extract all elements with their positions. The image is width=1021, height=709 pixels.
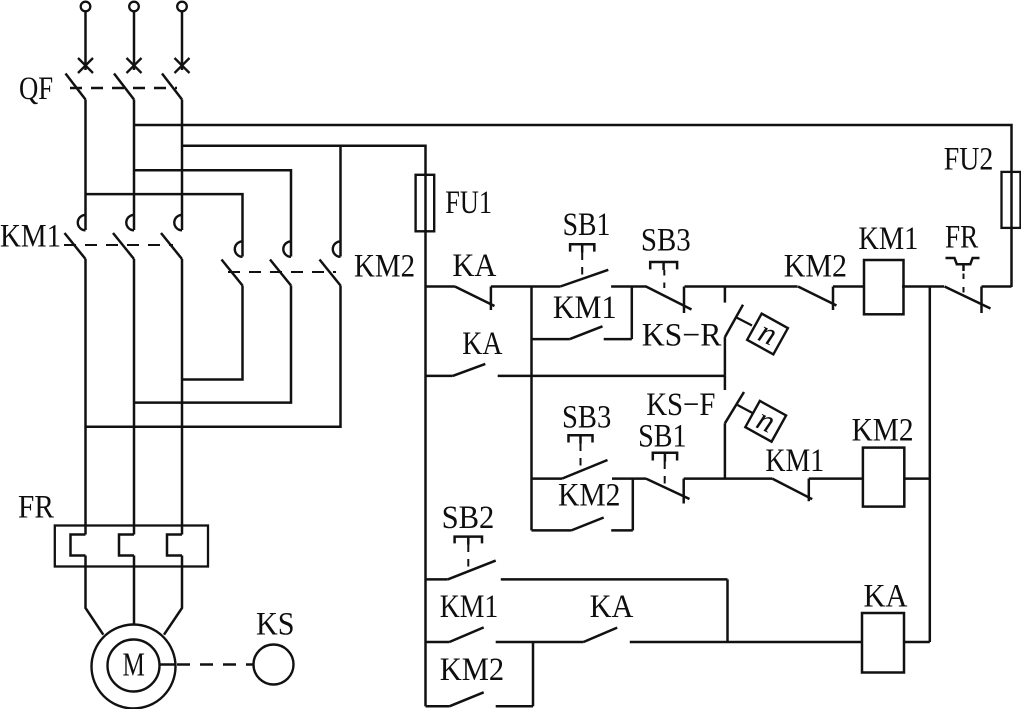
pushbutton SB1 NC rung3 <box>646 479 690 499</box>
breaker QF pole 2 X contact <box>127 58 142 73</box>
wire phase1 QF to KM1 <box>84 100 87 231</box>
svg-text:KA: KA <box>864 578 908 614</box>
wire feed phase1 to KM2 pole1 <box>86 194 243 256</box>
svg-text:QF: QF <box>19 70 53 106</box>
svg-text:KA: KA <box>452 247 496 283</box>
svg-text:SB3: SB3 <box>562 398 611 435</box>
svg-text:KM1: KM1 <box>858 220 918 256</box>
speed sensor KS circle <box>254 645 294 685</box>
wire rung2 to KS-R <box>498 375 725 378</box>
svg-text:FR: FR <box>18 488 54 525</box>
coil KM2 <box>863 448 904 507</box>
svg-text:KM2: KM2 <box>558 476 620 513</box>
rung2 lead from bus <box>426 375 453 378</box>
wire rung1 SB3 to KM2 <box>685 285 798 288</box>
svg-text:KS−R: KS−R <box>642 317 722 354</box>
rung1 lead from bus <box>426 285 455 288</box>
svg-text:KS: KS <box>256 605 294 642</box>
wire L2 drop to QF <box>133 11 136 70</box>
svg-text:KM1: KM1 <box>440 588 499 625</box>
svg-text:SB2: SB2 <box>442 499 495 535</box>
wire KM2 pole1 output to phase3 <box>182 286 243 380</box>
contactor KM2 main pole 2 <box>283 241 291 256</box>
wire rung5 KA to coil KA <box>630 641 862 644</box>
breaker QF pole 3 X contact <box>175 58 190 73</box>
KS-F actuator link <box>738 405 753 413</box>
contactor KM2 main pole 1 <box>235 241 243 256</box>
fuse FU2 <box>1002 172 1021 228</box>
contactor KM2 linkage dashed <box>228 271 336 273</box>
SB1 rung3 cap <box>653 453 677 462</box>
wire rung3 SB1 to KM1 <box>684 477 773 480</box>
svg-text:KM2: KM2 <box>784 247 847 284</box>
pushbutton SB3 NO rung3 blade <box>562 460 608 479</box>
rung4 lead from bus <box>426 578 448 581</box>
wire rung4 to connector <box>501 578 728 581</box>
KM1 selfhold branch lead <box>532 338 570 341</box>
wire feed phase2 to KM2 pole2 <box>134 170 291 256</box>
KM2 selfhold branch lead <box>532 529 572 532</box>
FR heater element 2 <box>119 535 134 556</box>
svg-text:SB3: SB3 <box>641 221 691 258</box>
SB3 rung1 cap <box>650 262 677 270</box>
wire rung1 KA to SB1 <box>491 285 560 288</box>
supply terminal L1 <box>81 2 91 12</box>
SB3 rung3 cap <box>569 435 593 443</box>
wire coil KM1 to right bus <box>902 285 944 288</box>
KM1 selfhold right lead <box>604 338 632 341</box>
SB3 rung1 actuator dashed <box>663 270 665 294</box>
breaker QF linkage dashed <box>70 87 177 90</box>
KM1 selfhold bracket vertical <box>631 287 634 340</box>
relay contact KA NC rung1 <box>455 287 495 307</box>
contactor KM2 main pole 3 <box>333 241 341 256</box>
breaker QF pole 2 blade <box>114 74 134 100</box>
motor shaft stub <box>160 663 176 666</box>
connector rung4 to rung5 <box>726 579 729 642</box>
svg-text:KM2: KM2 <box>852 411 914 448</box>
wire rung3 KM1 to coil KM2 <box>809 477 863 480</box>
speed contact KS-F <box>724 376 727 390</box>
contactor KM1 linkage dashed <box>64 244 173 246</box>
FR heater element 1 <box>71 535 86 556</box>
svg-text:M: M <box>123 646 145 684</box>
rung5 lead from bus <box>426 641 450 644</box>
svg-text:FR: FR <box>945 218 979 255</box>
breaker QF pole 1 blade <box>66 74 86 100</box>
KM2 selfhold bracket vertical <box>632 479 635 531</box>
right control bus <box>929 287 932 643</box>
wire phase3 KM1 to FR <box>181 259 184 535</box>
contactor KM1 main pole 3 <box>174 215 182 230</box>
FR release symbol <box>946 258 980 271</box>
interlock contact KM2 NC rung1 <box>798 287 837 306</box>
rung3 lead from junction <box>532 477 563 480</box>
dashed link motor to KS <box>177 663 253 666</box>
KM2 selfhold right lead <box>611 529 633 532</box>
wire KM2 pole3 feed drop <box>339 146 342 257</box>
motor M outer circle <box>92 625 176 709</box>
wire KM2 pole2 output to phase2 <box>134 286 291 403</box>
pushbutton SB1 NO rung1 blade <box>560 270 608 287</box>
rung6 lead from bus <box>426 705 450 708</box>
KS-R n box <box>747 314 788 355</box>
wire KM2 pole3 output to phase1 <box>86 286 341 427</box>
wire rung5 KM1 to KA <box>496 641 584 644</box>
wire rung3 SB3 to SB1 <box>612 477 646 480</box>
svg-text:KM1: KM1 <box>765 442 824 479</box>
contactor KM1 main pole 2 <box>126 215 134 230</box>
supply terminal L2 <box>129 2 139 12</box>
thermal relay FR box <box>55 526 208 567</box>
svg-text:KM1: KM1 <box>553 289 617 326</box>
wire rung1 SB1 to SB3 <box>611 285 646 288</box>
bracket rung6 to rung5 <box>532 642 535 706</box>
wire phase2 FR to motor <box>133 556 136 625</box>
pushbutton SB1 actuator dashed <box>581 253 583 280</box>
wire L1 drop to QF <box>84 11 87 70</box>
coil KM1 <box>864 260 904 314</box>
svg-text:SB1: SB1 <box>638 417 686 454</box>
breaker QF pole 3 blade <box>162 74 182 100</box>
wire phase3 FR to motor <box>164 556 182 635</box>
wire rung1 KM2 to coil KM1 <box>833 285 864 288</box>
supply terminal L3 <box>177 2 187 12</box>
wire phase3 QF to KM1 <box>181 100 184 231</box>
wire top feed phase2 to FU2 bus <box>134 125 1012 287</box>
pushbutton SB3 NC rung1 <box>646 287 692 310</box>
wire phase1 KM1 to FR <box>84 259 87 535</box>
SB2 cap <box>455 537 482 545</box>
pushbutton SB1 cap <box>570 244 594 252</box>
wire FR to FU2 bus <box>982 285 1012 288</box>
svg-text:SB1: SB1 <box>563 206 611 243</box>
contact KM1 NO selfhold <box>570 326 603 339</box>
relay contact KA NO rung2 <box>453 364 486 376</box>
SB3 rung3 actuator dashed <box>580 444 582 472</box>
contact KM1 NO rung5 <box>449 627 483 642</box>
thermal contact FR NC rung1 <box>945 287 991 309</box>
KS-F n box <box>745 401 786 442</box>
svg-text:KM2: KM2 <box>440 651 504 687</box>
FR actuator dashed <box>963 274 965 299</box>
contact KM2 NO rung6 <box>449 692 483 706</box>
breaker QF pole 1 X contact <box>78 58 93 73</box>
contactor KM1 main pole 1 <box>78 215 86 230</box>
svg-text:KA: KA <box>462 325 502 362</box>
wire feed phase3 to FU1 bus <box>182 146 426 287</box>
KS-R actuator link <box>737 318 753 326</box>
FR heater element 3 <box>167 535 182 556</box>
fuse FU1 <box>416 175 435 232</box>
wire L3 drop to QF <box>181 11 184 70</box>
SB2 actuator dashed <box>467 545 469 572</box>
junction vertical rung1 to KM2 branch <box>530 287 533 531</box>
svg-text:FU1: FU1 <box>445 184 492 221</box>
wire phase1 FR to motor <box>86 556 104 635</box>
motor M inner circle <box>108 640 160 692</box>
interlock contact KM1 NC rung3 <box>772 479 812 500</box>
SB1 rung3 actuator dashed <box>664 462 666 490</box>
svg-text:KA: KA <box>590 588 634 624</box>
wire coil KM2 to right bus <box>904 477 930 480</box>
coil KA <box>862 613 904 673</box>
contact KA NO rung5 <box>584 628 618 642</box>
svg-text:KM1: KM1 <box>0 217 61 254</box>
wire coil KA to right bus <box>904 641 930 644</box>
svg-text:KM2: KM2 <box>354 247 415 284</box>
svg-text:FU2: FU2 <box>944 140 994 177</box>
wire phase2 KM1 to FR <box>133 259 136 535</box>
wire rung6 to bracket <box>496 705 533 708</box>
contact KM2 NO selfhold <box>571 518 603 531</box>
left control bus <box>424 287 427 707</box>
pushbutton SB2 NO rung4 blade <box>448 561 496 580</box>
speed contact KS-R <box>724 287 727 303</box>
wire phase2 QF to KM1 <box>133 100 136 231</box>
